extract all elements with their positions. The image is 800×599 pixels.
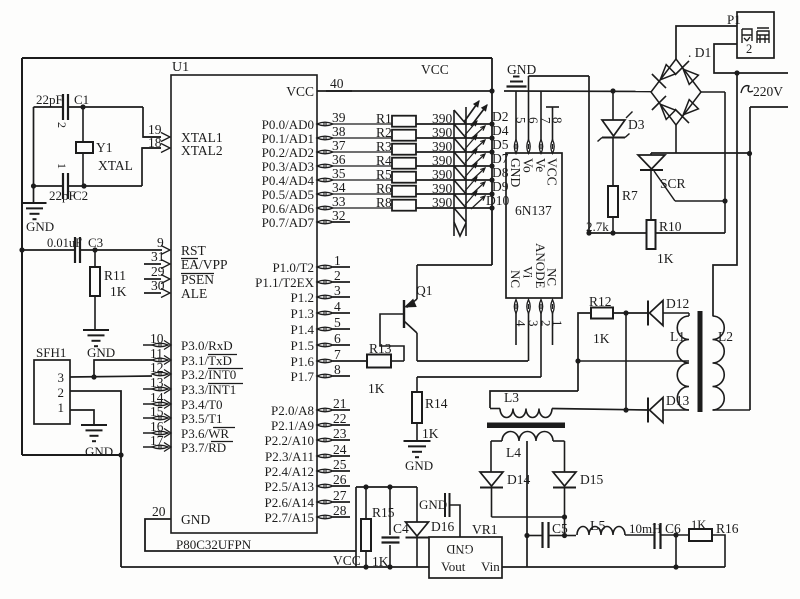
LED D10 bbox=[454, 194, 466, 208]
svg-text:D5: D5 bbox=[492, 137, 509, 152]
svg-text:29: 29 bbox=[151, 264, 165, 279]
svg-text:P0.1/AD1: P0.1/AD1 bbox=[262, 131, 314, 146]
pin 3 P1.2 bbox=[317, 295, 333, 299]
bridge diode top-right bbox=[683, 69, 698, 84]
wire C2 to pin18 bbox=[142, 148, 161, 186]
wire 6N137 pin8 stub bbox=[552, 107, 554, 140]
svg-text:22pF: 22pF bbox=[36, 92, 63, 107]
node bridge bottom rail junction bbox=[747, 151, 752, 156]
node L1 center tap junction bbox=[575, 358, 580, 363]
thyristor SCR bbox=[650, 153, 652, 155]
svg-text:1: 1 bbox=[334, 253, 341, 268]
resistor R14 1K bbox=[416, 377, 418, 392]
svg-text:35: 35 bbox=[332, 166, 346, 181]
svg-text:P3.0/RxD: P3.0/RxD bbox=[181, 338, 233, 353]
pin 5 6N137 bbox=[514, 140, 517, 154]
pin 2 6N137 bbox=[539, 300, 542, 314]
svg-text:D12: D12 bbox=[666, 296, 689, 311]
wire 6N137 pin6 up-over bbox=[528, 76, 530, 140]
node C4 top bbox=[387, 484, 392, 489]
pin 11 P3.1 bbox=[152, 358, 168, 362]
svg-text:D4: D4 bbox=[492, 123, 509, 138]
wire C6 junction down bbox=[675, 535, 677, 567]
node C3 R11 junction bbox=[92, 247, 97, 252]
wire LED D10 cathode node bbox=[489, 205, 494, 210]
node C2 crystal junction bbox=[81, 183, 86, 188]
inductor L5 10mH bbox=[565, 535, 577, 537]
svg-text:30: 30 bbox=[151, 278, 165, 293]
svg-text:GND: GND bbox=[26, 219, 54, 234]
svg-text:25: 25 bbox=[333, 457, 347, 472]
svg-text:10mH: 10mH bbox=[629, 521, 662, 536]
diode D16 bbox=[416, 487, 418, 522]
pin 32 P0.7 bbox=[317, 220, 333, 224]
inductor L3 bbox=[500, 409, 552, 418]
pin 3 6N137 bbox=[527, 300, 530, 314]
resistor R13 1K bbox=[333, 360, 367, 362]
LED D10 emission arrows bbox=[465, 191, 477, 205]
wire R14 to 6N137 pin2 bbox=[417, 376, 541, 378]
node D3 top junction bbox=[610, 88, 615, 93]
pin 22 P2.1 bbox=[317, 423, 333, 427]
capacitor C3 0.01uF bbox=[22, 249, 75, 251]
svg-text:R1: R1 bbox=[376, 111, 392, 126]
node SFH1 pin3 branch bbox=[91, 374, 96, 379]
svg-text:36: 36 bbox=[332, 152, 346, 167]
wire SCR gate to junction bbox=[675, 200, 725, 202]
pin 4 P1.3 bbox=[317, 311, 333, 315]
svg-text:P3.2/INT0: P3.2/INT0 bbox=[181, 367, 236, 382]
diode D12 bbox=[650, 301, 664, 326]
wire fan pin1 to bridge top bbox=[676, 26, 737, 59]
node frame SFH1 rail junction bbox=[118, 452, 123, 457]
node pin6 rail bottom bbox=[586, 230, 591, 235]
LED D2 bbox=[454, 110, 466, 124]
svg-text:VR1: VR1 bbox=[472, 522, 498, 537]
pin 1 P1.0 bbox=[317, 265, 333, 269]
resistor R3 390 bbox=[392, 144, 416, 155]
crystal Y1 bbox=[82, 107, 84, 142]
svg-text:R15: R15 bbox=[372, 505, 395, 520]
svg-text:EA/VPP: EA/VPP bbox=[181, 257, 228, 272]
pin 33 P0.6 bbox=[317, 206, 333, 210]
node R12 D12 junction bbox=[623, 310, 628, 315]
svg-text:20: 20 bbox=[152, 504, 166, 519]
svg-text:NC: NC bbox=[545, 268, 560, 286]
wire 220V rail down to L2 bbox=[749, 107, 751, 410]
node VCC rail top bbox=[489, 88, 494, 93]
svg-text:GND: GND bbox=[181, 512, 210, 527]
LED D2 emission arrows bbox=[464, 101, 479, 122]
pin 17 P3.7 bbox=[152, 445, 168, 449]
svg-text:P3.6/WR: P3.6/WR bbox=[181, 426, 229, 441]
svg-text:28: 28 bbox=[333, 503, 347, 518]
pin 34 P0.5 bbox=[317, 192, 333, 196]
wire D14 D15 cathode bus bbox=[492, 516, 565, 518]
svg-text:31: 31 bbox=[151, 249, 165, 264]
svg-text:R2: R2 bbox=[376, 125, 392, 140]
svg-text:P2.0/A8: P2.0/A8 bbox=[271, 403, 314, 418]
wire gate rail vertical bbox=[724, 92, 726, 233]
svg-text:SCR: SCR bbox=[660, 176, 686, 191]
svg-text:24: 24 bbox=[333, 442, 347, 457]
wire left frame vertical bbox=[21, 58, 23, 455]
svg-text:VCC: VCC bbox=[333, 553, 361, 568]
svg-text:4: 4 bbox=[334, 299, 341, 314]
wire VCC bottom rail bbox=[121, 566, 429, 568]
svg-text:R6: R6 bbox=[376, 181, 392, 196]
resistor R1 390 bbox=[392, 116, 416, 127]
svg-text:11: 11 bbox=[150, 346, 163, 361]
wire Q1 collector to 6N137 pin3 bbox=[417, 360, 528, 362]
pin 9 RST bbox=[161, 246, 170, 255]
capacitor C2 22pF bbox=[34, 185, 64, 187]
node R15 bottom bbox=[363, 564, 368, 569]
svg-text:GND: GND bbox=[446, 542, 473, 556]
connector SFH1 bbox=[34, 360, 70, 424]
wire L4 center tap down bbox=[526, 441, 528, 567]
pin 38 P0.1 bbox=[317, 136, 333, 140]
LED D5 emission arrows bbox=[465, 135, 477, 149]
pin 10 P3.0 bbox=[152, 343, 168, 347]
diode D14 bbox=[480, 472, 503, 486]
svg-text:6: 6 bbox=[334, 331, 341, 346]
node C5 right junction bbox=[562, 533, 567, 538]
LED D7 bbox=[454, 152, 466, 166]
wire R16 to bottom rail bbox=[712, 535, 725, 567]
wire SFH1 pin3 to P3.2 bbox=[70, 376, 152, 377]
bridge diode bottom-left bbox=[660, 104, 675, 119]
svg-text:R3: R3 bbox=[376, 139, 392, 154]
svg-text:1: 1 bbox=[55, 163, 69, 169]
wire fan pin2 jog bbox=[714, 44, 788, 73]
wire LED D2 cathode node bbox=[489, 121, 494, 126]
LED array left bar bbox=[453, 110, 455, 236]
pin 7 6N137 bbox=[539, 140, 542, 154]
svg-text:16: 16 bbox=[150, 419, 164, 434]
capacitor C4 bbox=[389, 487, 391, 535]
wire fan rail down bbox=[713, 73, 737, 316]
svg-text:P1.0/T2: P1.0/T2 bbox=[272, 260, 314, 275]
svg-text:21: 21 bbox=[333, 396, 347, 411]
svg-text:VCC: VCC bbox=[421, 62, 449, 77]
wire Vin bottom rail bbox=[502, 566, 725, 568]
svg-text:P3.3/INT1: P3.3/INT1 bbox=[181, 382, 236, 397]
wire LED D8 cathode node bbox=[489, 177, 494, 182]
wire L2 bottom bbox=[713, 409, 751, 411]
pin 1 6N137 bbox=[551, 300, 554, 314]
svg-text:1K: 1K bbox=[368, 381, 385, 396]
svg-text:15: 15 bbox=[150, 404, 164, 419]
pin 6 P1.5 bbox=[317, 343, 333, 347]
svg-text:13: 13 bbox=[150, 375, 164, 390]
wire 6N137 pin1 stub bbox=[552, 313, 554, 345]
svg-text:1: 1 bbox=[58, 400, 65, 415]
wire VCC bus y487 bbox=[356, 486, 417, 488]
svg-text:C1: C1 bbox=[74, 92, 89, 107]
svg-text:R4: R4 bbox=[376, 153, 392, 168]
svg-text:D15: D15 bbox=[580, 472, 603, 487]
svg-text:Y1: Y1 bbox=[96, 140, 113, 155]
wire Q1 base jog bbox=[380, 314, 404, 361]
svg-text:33: 33 bbox=[332, 194, 346, 209]
svg-text:L3: L3 bbox=[504, 390, 519, 405]
wire top VCC line bbox=[22, 57, 492, 59]
pin 28 P2.7 bbox=[317, 515, 333, 519]
svg-text:1K: 1K bbox=[691, 518, 706, 532]
svg-text:P1.6: P1.6 bbox=[291, 354, 315, 369]
svg-text:220V: 220V bbox=[753, 84, 783, 99]
svg-text:38: 38 bbox=[332, 124, 346, 139]
transformer core bar bbox=[698, 311, 703, 412]
svg-text:D14: D14 bbox=[507, 472, 530, 487]
bridge rectifier D1 diamond bbox=[651, 59, 701, 125]
wire R12 bypass vertical bbox=[625, 313, 627, 410]
pin 19 XTAL1 bbox=[161, 133, 170, 142]
pin 15 P3.5 bbox=[152, 416, 168, 420]
svg-text:VCC: VCC bbox=[545, 158, 560, 186]
svg-text:10: 10 bbox=[150, 331, 164, 346]
svg-text:32: 32 bbox=[332, 208, 346, 223]
svg-text:26: 26 bbox=[333, 472, 347, 487]
svg-text:1K: 1K bbox=[422, 426, 439, 441]
wire R5 to LED bbox=[416, 179, 466, 181]
svg-text:P3.7/RD: P3.7/RD bbox=[181, 440, 226, 455]
pin 2 P1.1 bbox=[317, 280, 333, 284]
node C6 output junction bbox=[673, 532, 678, 537]
pin 26 P2.5 bbox=[317, 484, 333, 488]
transistor Q1 bbox=[416, 265, 418, 299]
svg-text:R12: R12 bbox=[589, 294, 612, 309]
pin 23 P2.2 bbox=[317, 438, 333, 442]
capacitor C6 bbox=[653, 523, 655, 549]
svg-text:1K: 1K bbox=[593, 331, 610, 346]
node bottom rail C6 junction bbox=[673, 564, 678, 569]
svg-text:Vin: Vin bbox=[481, 559, 500, 574]
inductor L1 primary winding bbox=[677, 316, 689, 410]
wire GND bus to bridge bbox=[504, 90, 651, 93]
wire rail to Q1 emitter bbox=[417, 264, 492, 266]
svg-text:P0.7/AD7: P0.7/AD7 bbox=[262, 215, 315, 230]
svg-text:VCC: VCC bbox=[286, 84, 314, 99]
LED D7 emission arrows bbox=[465, 149, 477, 163]
svg-text:2: 2 bbox=[58, 385, 65, 400]
ground SFH1 GND bbox=[81, 424, 107, 426]
pin 35 P0.4 bbox=[317, 178, 333, 182]
wire 6N137 pin7 bbox=[540, 91, 542, 140]
node D15 cathode junction bbox=[562, 514, 567, 519]
LED D4 bbox=[454, 124, 466, 138]
wire frame bottom to SFH1 rail bbox=[22, 454, 121, 456]
pin 37 P0.2 bbox=[317, 150, 333, 154]
svg-text:39: 39 bbox=[332, 110, 346, 125]
wire SFH1 pin3 branch to P3.1 bbox=[94, 360, 152, 377]
wire LED D9 cathode node bbox=[489, 191, 494, 196]
wire LED D5 cathode node bbox=[489, 149, 494, 154]
svg-text:XTAL: XTAL bbox=[98, 158, 133, 173]
svg-text:P0.4/AD4: P0.4/AD4 bbox=[262, 173, 315, 188]
node frame RST junction bbox=[19, 247, 24, 252]
LED array bottom chevrons bbox=[454, 208, 466, 222]
svg-text:P1.1/T2EX: P1.1/T2EX bbox=[255, 275, 314, 290]
node SCR gate junction bbox=[722, 198, 727, 203]
wire 6N137 pin2 down bbox=[540, 313, 542, 377]
svg-text:14: 14 bbox=[150, 390, 164, 405]
svg-text:P80C32UFPN: P80C32UFPN bbox=[176, 537, 252, 552]
wire L3 to D13 bbox=[552, 409, 648, 411]
wire pin6 rail down bbox=[588, 76, 590, 233]
svg-text:P1.3: P1.3 bbox=[291, 306, 314, 321]
wire 6N137 pin5 to GND bbox=[515, 91, 517, 140]
LED D9 bbox=[454, 180, 466, 194]
label fan chinese bbox=[742, 28, 769, 43]
wire bus left leg bbox=[355, 487, 357, 567]
node D13 line junction bbox=[623, 407, 628, 412]
op-amp U1 P80C32UFPN microcontroller box bbox=[171, 75, 317, 533]
svg-text:R13: R13 bbox=[369, 341, 392, 356]
svg-text:PSEN: PSEN bbox=[181, 272, 214, 287]
svg-text:R7: R7 bbox=[622, 188, 638, 203]
svg-text:D16: D16 bbox=[431, 519, 454, 534]
node C5 left junction bbox=[524, 533, 529, 538]
svg-text:GND: GND bbox=[405, 458, 433, 473]
wire L3 feed line bbox=[490, 391, 578, 408]
svg-text:P2.5/A13: P2.5/A13 bbox=[265, 479, 314, 494]
LED array cathode bar bbox=[465, 107, 467, 236]
svg-text:37: 37 bbox=[332, 138, 346, 153]
wire 6N137 pin3 down bbox=[528, 313, 530, 361]
resistor R6 390 bbox=[392, 186, 416, 197]
pin 29 PSEN bbox=[161, 275, 170, 284]
svg-text:GND: GND bbox=[507, 62, 536, 77]
LED D5 bbox=[454, 138, 466, 152]
ground crystal GND bbox=[23, 202, 47, 204]
wire R3 to LED bbox=[416, 151, 466, 153]
pin 16 P3.6 bbox=[152, 431, 168, 435]
svg-text:D3: D3 bbox=[628, 117, 645, 132]
capacitor C5 bbox=[527, 535, 542, 537]
svg-text:P2.6/A14: P2.6/A14 bbox=[265, 495, 315, 510]
svg-text:C2: C2 bbox=[73, 188, 88, 203]
pin 27 P2.6 bbox=[317, 500, 333, 504]
wire LED D7 cathode node bbox=[489, 163, 494, 168]
svg-text:GND: GND bbox=[419, 497, 447, 512]
resistor R5 390 bbox=[392, 172, 416, 183]
wire SFH1 pin2 rail down bbox=[70, 391, 121, 567]
node R15 top bbox=[363, 484, 368, 489]
svg-text:R10: R10 bbox=[659, 219, 682, 234]
LED D4 emission arrows bbox=[465, 121, 477, 135]
wire L4 right to D15 bbox=[564, 441, 566, 472]
resistor R11 1K bbox=[94, 250, 96, 267]
svg-text:. D1: . D1 bbox=[688, 45, 711, 60]
wire LED D4 cathode node bbox=[489, 135, 494, 140]
pin 8 6N137 bbox=[551, 140, 554, 154]
svg-text:Vout: Vout bbox=[441, 559, 466, 574]
capacitor C1 22pF bbox=[34, 106, 64, 108]
svg-text:12: 12 bbox=[150, 360, 164, 375]
pin 18 XTAL2 bbox=[161, 144, 170, 153]
svg-text:5: 5 bbox=[334, 315, 341, 330]
svg-text:P1: P1 bbox=[727, 12, 741, 27]
inductor L2 secondary winding bbox=[713, 316, 725, 410]
pin 14 P3.4 bbox=[152, 402, 168, 406]
resistor R12 1K bbox=[591, 308, 613, 319]
wire R8 to LED bbox=[416, 207, 466, 209]
wire 6N137 pin4 stub bbox=[515, 313, 517, 345]
ground R14 GND bbox=[404, 440, 431, 442]
pin 8 P1.7 bbox=[317, 374, 333, 378]
svg-text:SFH1: SFH1 bbox=[36, 345, 66, 360]
svg-text:22pF: 22pF bbox=[49, 188, 76, 203]
wire R2 to LED bbox=[416, 137, 466, 139]
pin 30 ALE bbox=[161, 289, 170, 298]
svg-text:2: 2 bbox=[746, 42, 752, 56]
resistor R15 1K bbox=[365, 487, 367, 519]
svg-text:P3.4/T0: P3.4/T0 bbox=[181, 397, 223, 412]
pin 4 6N137 bbox=[514, 300, 517, 314]
pin 31 EA/VPP bbox=[161, 260, 170, 269]
pin 12 P3.2 bbox=[152, 372, 168, 376]
svg-text:R11: R11 bbox=[104, 268, 126, 283]
svg-text:8: 8 bbox=[334, 362, 341, 377]
svg-text:27: 27 bbox=[333, 488, 347, 503]
svg-text:2.7k: 2.7k bbox=[586, 219, 609, 234]
svg-text:RST: RST bbox=[181, 243, 207, 258]
svg-text:C6: C6 bbox=[665, 521, 681, 536]
resistor R2 390 bbox=[392, 130, 416, 141]
wire L5 to C6 bbox=[625, 534, 654, 536]
svg-text:34: 34 bbox=[332, 180, 346, 195]
node C2 left junction bbox=[31, 183, 36, 188]
svg-text:P0.0/AD0: P0.0/AD0 bbox=[262, 117, 314, 132]
diode D13 bbox=[650, 398, 664, 423]
node C4 bottom bbox=[387, 564, 392, 569]
svg-text:P3.1/TxD: P3.1/TxD bbox=[181, 353, 232, 368]
svg-text:D2: D2 bbox=[492, 109, 509, 124]
wire gate line horizontal bbox=[589, 232, 647, 234]
svg-text:P1.5: P1.5 bbox=[291, 338, 314, 353]
wire bridge bottom to SCR and rail bbox=[675, 125, 677, 153]
svg-text:17: 17 bbox=[150, 433, 164, 448]
wire bridge right vertex to gate rail bbox=[701, 91, 725, 93]
svg-text:P0.2/AD2: P0.2/AD2 bbox=[262, 145, 314, 160]
svg-text:23: 23 bbox=[333, 426, 347, 441]
svg-text:40: 40 bbox=[330, 76, 344, 91]
svg-text:P0.5/AD5: P0.5/AD5 bbox=[262, 187, 314, 202]
pin 13 P3.3 bbox=[152, 387, 168, 391]
node R7 bottom junction bbox=[610, 230, 615, 235]
pin 7 P1.6 bbox=[317, 359, 333, 363]
svg-text:R14: R14 bbox=[425, 396, 448, 411]
resistor R4 390 bbox=[392, 158, 416, 169]
svg-text:1K: 1K bbox=[110, 284, 127, 299]
wire crystal left rail bbox=[33, 107, 35, 202]
pin 6 6N137 bbox=[527, 140, 530, 154]
inductor L4 bbox=[502, 432, 553, 441]
svg-text:GND: GND bbox=[85, 444, 113, 459]
resistor R7 2.7k bbox=[612, 138, 614, 187]
node C1 crystal junction bbox=[80, 104, 85, 109]
svg-text:7: 7 bbox=[334, 347, 341, 362]
wire C1 to pin19 bbox=[143, 107, 161, 137]
resistor R10 1K bbox=[647, 220, 656, 249]
wire R4 to LED bbox=[416, 165, 466, 167]
LED D8 bbox=[454, 166, 466, 180]
bridge diode bottom-right bbox=[683, 100, 698, 115]
bridge diode top-left bbox=[660, 65, 675, 80]
resistor R16 1K bbox=[689, 529, 712, 541]
